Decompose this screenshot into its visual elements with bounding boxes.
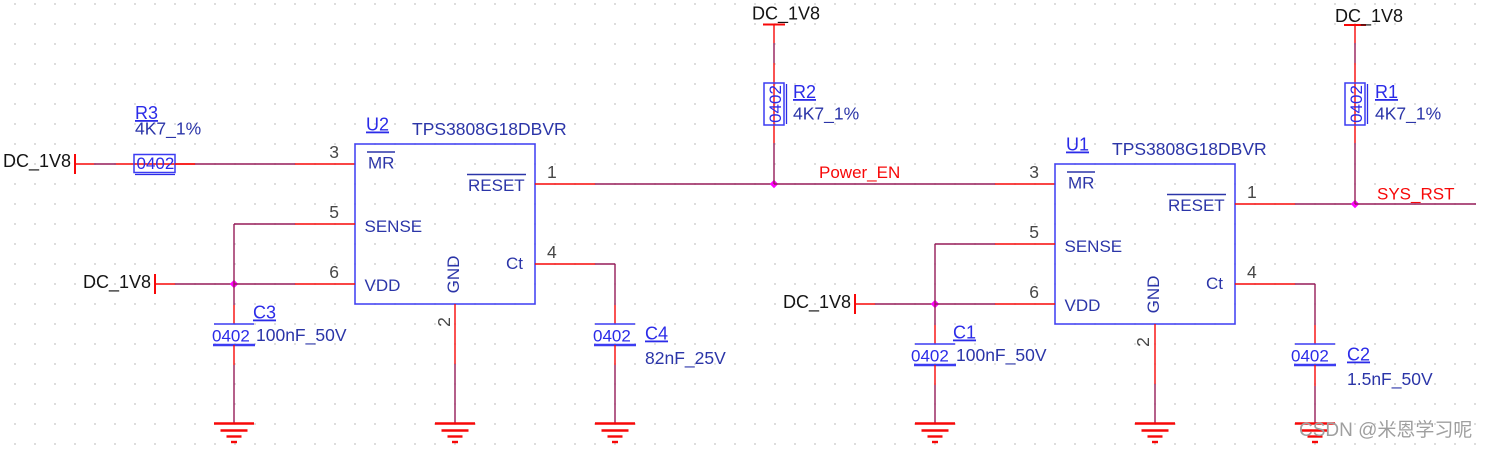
watermark bbox=[1299, 419, 1472, 441]
wire bbox=[195, 163, 295, 165]
ground bbox=[1135, 424, 1175, 443]
svg-text:0402: 0402 bbox=[593, 327, 631, 346]
resistor R1 pins bbox=[1354, 63, 1356, 143]
svg-text:DC_1V8: DC_1V8 bbox=[3, 151, 71, 172]
wire bbox=[934, 385, 936, 424]
ground bbox=[1295, 424, 1335, 443]
wire bbox=[233, 365, 235, 424]
svg-text:6: 6 bbox=[329, 262, 339, 282]
wire bbox=[1295, 203, 1355, 205]
ground bbox=[915, 424, 955, 443]
wire bbox=[155, 283, 175, 285]
wire bbox=[773, 143, 775, 184]
svg-text:C2: C2 bbox=[1347, 345, 1370, 365]
svg-text:Power_EN: Power_EN bbox=[819, 163, 900, 182]
resistor R1 value label bbox=[1375, 82, 1441, 125]
svg-text:SENSE: SENSE bbox=[365, 217, 423, 236]
wire bbox=[175, 283, 234, 285]
resistor R3 pin 1 bbox=[116, 163, 195, 165]
U1 pin name Ct bbox=[1206, 274, 1223, 293]
power port DC_1V8 (feeds R2) bbox=[752, 4, 820, 44]
node junction Power_EN/R2 bbox=[770, 180, 778, 188]
wire bbox=[595, 263, 615, 265]
power port DC_1V8 (feeds U1 VDD) bbox=[783, 292, 855, 314]
wire bbox=[855, 303, 875, 305]
wire bbox=[233, 284, 235, 305]
U1 pin name RESET bbox=[1167, 195, 1226, 216]
svg-text:TPS3808G18DBVR: TPS3808G18DBVR bbox=[1112, 139, 1267, 159]
capacitor C1 pin 1 bbox=[934, 325, 936, 344]
capacitor C3 pin 2 bbox=[233, 345, 235, 365]
U2 pin 3 (MR) bbox=[295, 142, 355, 164]
U1 pin 1 (RESET) bbox=[1235, 182, 1295, 204]
svg-text:U1: U1 bbox=[1066, 135, 1089, 155]
svg-text:DC_1V8: DC_1V8 bbox=[1335, 6, 1403, 27]
svg-text:3: 3 bbox=[1029, 162, 1039, 182]
wire bbox=[1314, 284, 1316, 325]
U2 pin 4 (Ct) bbox=[535, 242, 595, 264]
svg-text:R1: R1 bbox=[1375, 82, 1398, 102]
svg-text:MR: MR bbox=[1068, 174, 1094, 193]
capacitor C4 pin 1 bbox=[614, 305, 616, 324]
wire bbox=[1154, 384, 1156, 424]
svg-text:DC_1V8: DC_1V8 bbox=[783, 292, 851, 313]
svg-text:5: 5 bbox=[329, 202, 339, 222]
svg-text:4K7_1%: 4K7_1% bbox=[135, 119, 201, 140]
svg-text:Ct: Ct bbox=[506, 254, 523, 273]
svg-text:0402: 0402 bbox=[137, 154, 175, 173]
svg-text:0402: 0402 bbox=[766, 85, 785, 123]
svg-text:SYS_RST: SYS_RST bbox=[1377, 185, 1454, 204]
wire bbox=[234, 283, 295, 285]
svg-text:2: 2 bbox=[1133, 337, 1153, 347]
capacitor C3 body (0402) bbox=[212, 324, 255, 346]
svg-text:100nF_50V: 100nF_50V bbox=[956, 345, 1047, 366]
U1 pin name VDD bbox=[1065, 296, 1101, 315]
svg-text:RESET: RESET bbox=[1168, 196, 1225, 215]
U1 pin name GND bbox=[1144, 276, 1163, 314]
power port DC_1V8 (feeds R3) bbox=[3, 151, 75, 174]
U1 pin name MR bbox=[1067, 172, 1095, 193]
U1 designator label bbox=[1066, 135, 1267, 160]
wire bbox=[614, 264, 616, 305]
U1 pin 4 (Ct) bbox=[1235, 262, 1295, 284]
svg-text:MR: MR bbox=[368, 154, 394, 173]
wire bbox=[934, 304, 936, 325]
svg-text:0402: 0402 bbox=[212, 327, 250, 346]
svg-text:DC_1V8: DC_1V8 bbox=[83, 272, 151, 293]
svg-text:U2: U2 bbox=[366, 115, 389, 135]
capacitor C2 body (0402) bbox=[1291, 344, 1336, 366]
svg-text:82nF_25V: 82nF_25V bbox=[645, 348, 726, 369]
capacitor C4 body (0402) bbox=[593, 324, 636, 346]
U2 pin 5 (SENSE) bbox=[295, 202, 355, 224]
svg-text:4K7_1%: 4K7_1% bbox=[1375, 104, 1441, 125]
capacitor C2 value label bbox=[1347, 345, 1433, 391]
wire bbox=[935, 243, 995, 245]
wire bbox=[875, 303, 935, 305]
capacitor C2 pin 1 bbox=[1314, 325, 1316, 344]
power port DC_1V8 (feeds U2 VDD) bbox=[83, 272, 155, 294]
svg-text:DC_1V8: DC_1V8 bbox=[752, 4, 820, 25]
svg-text:TPS3808G18DBVR: TPS3808G18DBVR bbox=[412, 119, 567, 139]
resistor R3 value label bbox=[135, 103, 201, 140]
wire bbox=[1295, 283, 1315, 285]
svg-text:C3: C3 bbox=[253, 303, 276, 323]
ground bbox=[214, 424, 254, 443]
wire bbox=[934, 244, 936, 304]
svg-text:5: 5 bbox=[1029, 222, 1039, 242]
wire bbox=[935, 303, 995, 305]
svg-text:2: 2 bbox=[434, 317, 454, 327]
ground bbox=[595, 424, 635, 443]
capacitor C3 pin 1 bbox=[233, 305, 235, 324]
svg-text:1: 1 bbox=[1247, 182, 1257, 202]
wire bbox=[234, 223, 295, 225]
wire bbox=[1354, 43, 1356, 63]
capacitor C1 body (0402) bbox=[911, 344, 956, 366]
svg-text:C1: C1 bbox=[953, 323, 976, 343]
svg-text:CSDN @米恩学习呢: CSDN @米恩学习呢 bbox=[1299, 419, 1472, 441]
resistor R3 body (0402) bbox=[134, 154, 175, 175]
U2 pin name Ct bbox=[506, 254, 523, 273]
svg-text:4K7_1%: 4K7_1% bbox=[793, 104, 859, 125]
U2 designator label bbox=[366, 115, 567, 140]
svg-text:100nF_50V: 100nF_50V bbox=[256, 325, 347, 346]
resistor R1 body (0402) bbox=[1345, 83, 1368, 125]
svg-text:0402: 0402 bbox=[1347, 85, 1366, 123]
op-amp U2 body TPS3808G18DBVR bbox=[355, 144, 535, 304]
U2 pin name SENSE bbox=[365, 217, 423, 236]
capacitor C1 value label bbox=[953, 323, 1047, 367]
svg-text:R2: R2 bbox=[793, 82, 816, 102]
wire bbox=[75, 163, 94, 165]
U1 pin 3 (MR) bbox=[995, 162, 1055, 184]
svg-text:VDD: VDD bbox=[1065, 296, 1101, 315]
net label SYS_RST bbox=[1377, 185, 1454, 204]
U2 pin name GND bbox=[444, 256, 463, 294]
svg-text:6: 6 bbox=[1029, 282, 1039, 302]
op-amp U1 body TPS3808G18DBVR bbox=[1055, 164, 1235, 324]
U2 pin 2 (GND) bbox=[434, 304, 455, 364]
wire bbox=[773, 43, 775, 63]
capacitor C4 pin 2 bbox=[614, 345, 616, 365]
wire bbox=[1355, 203, 1476, 205]
U2 pin 1 (RESET) bbox=[535, 162, 595, 184]
U2 pin name MR bbox=[367, 152, 395, 173]
svg-text:VDD: VDD bbox=[365, 276, 401, 295]
U1 pin 5 (SENSE) bbox=[995, 222, 1055, 244]
resistor R2 value label bbox=[793, 82, 859, 125]
U2 pin 6 (VDD) bbox=[295, 262, 355, 284]
U1 pin name SENSE bbox=[1065, 237, 1123, 256]
svg-text:0402: 0402 bbox=[1291, 347, 1329, 366]
svg-text:1.5nF_50V: 1.5nF_50V bbox=[1347, 369, 1433, 390]
svg-text:4: 4 bbox=[547, 242, 557, 262]
U1 pin 2 (GND) bbox=[1133, 324, 1155, 384]
U2 pin name RESET bbox=[467, 175, 526, 196]
wire bbox=[595, 183, 774, 185]
wire bbox=[1354, 143, 1356, 204]
resistor R3 pin 2 bbox=[175, 163, 195, 165]
resistor R2 body (0402) bbox=[764, 83, 787, 125]
svg-text:0402: 0402 bbox=[911, 347, 949, 366]
node junction VDD/C1 bbox=[931, 300, 939, 308]
wire bbox=[94, 163, 116, 165]
svg-text:SENSE: SENSE bbox=[1065, 237, 1123, 256]
capacitor C3 value label bbox=[253, 303, 347, 347]
node junction SYS_RST/R1 bbox=[1351, 200, 1359, 208]
svg-text:GND: GND bbox=[444, 256, 463, 294]
wire bbox=[233, 224, 235, 284]
power port DC_1V8 (feeds R1) bbox=[1335, 6, 1403, 43]
node junction VDD/C3 bbox=[230, 280, 238, 288]
capacitor C1 pin 2 bbox=[934, 365, 936, 385]
svg-text:3: 3 bbox=[329, 142, 339, 162]
svg-text:Ct: Ct bbox=[1206, 274, 1223, 293]
svg-text:1: 1 bbox=[547, 162, 557, 182]
wire bbox=[614, 365, 616, 424]
svg-text:4: 4 bbox=[1247, 262, 1257, 282]
wire bbox=[774, 183, 995, 185]
wire bbox=[454, 364, 456, 424]
capacitor C4 value label bbox=[645, 324, 726, 370]
net label Power_EN bbox=[819, 163, 900, 182]
ground bbox=[435, 424, 475, 443]
svg-text:GND: GND bbox=[1144, 276, 1163, 314]
capacitor C2 pin 2 bbox=[1314, 365, 1316, 386]
wire bbox=[1314, 386, 1316, 424]
resistor R2 pins bbox=[773, 63, 775, 143]
svg-text:RESET: RESET bbox=[468, 176, 525, 195]
U1 pin 6 (VDD) bbox=[995, 282, 1055, 304]
U2 pin name VDD bbox=[365, 276, 401, 295]
svg-text:C4: C4 bbox=[645, 324, 668, 344]
